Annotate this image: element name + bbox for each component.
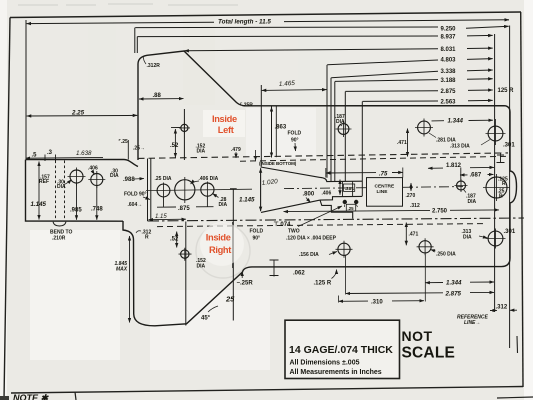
1.020 vertical with arrows (trapezoid left edge) [260, 168, 262, 211]
dimension .52 upper [171, 127, 181, 129]
CENTRE LINE box [367, 178, 403, 207]
dimension 1.145 tab height [38, 162, 40, 220]
dimension .75 centre [326, 172, 376, 174]
small vertical with arrow near 255 [255, 150, 257, 161]
svg-text:1.812: 1.812 [446, 163, 462, 169]
svg-text:.301: .301 [503, 143, 515, 149]
circles row hairline centerline [146, 189, 252, 190]
dimension 1.344 lower [425, 282, 443, 284]
svg-text:1.344: 1.344 [446, 280, 462, 287]
svg-text:R: R [145, 235, 149, 241]
left tab outline [26, 160, 139, 167]
svg-text:90°: 90° [291, 138, 299, 144]
svg-text:.88: .88 [153, 93, 162, 99]
drop 8.937 [136, 37, 138, 53]
svg-text:DIA: DIA [219, 202, 228, 208]
svg-text:.406: .406 [322, 191, 332, 197]
dimension 8.031 [184, 49, 438, 51]
svg-text:1.145: 1.145 [31, 201, 47, 208]
svg-text:.800: .800 [303, 192, 315, 198]
svg-text:.210R: .210R [52, 236, 66, 242]
drop 1.465 left [260, 85, 262, 167]
hole .156 DIA [338, 243, 350, 255]
dimension 1.845 MAX [129, 236, 131, 323]
svg-text:1.344: 1.344 [448, 117, 464, 124]
.863 extension [271, 107, 273, 158]
svg-text:1.15: 1.15 [155, 214, 167, 220]
svg-text:.471: .471 [397, 140, 407, 146]
svg-text:.125 R: .125 R [314, 281, 332, 287]
hole .187 DIA upper [338, 124, 349, 135]
svg-text:.25→: .25→ [133, 146, 145, 152]
second extension [275, 107, 277, 158]
svg-text:R: R [499, 194, 503, 200]
svg-text:3.338: 3.338 [441, 69, 457, 75]
svg-text:125 R: 125 R [498, 88, 515, 94]
drop 2.563 / neck right edge [361, 102, 363, 197]
hole .281 DIA [418, 121, 431, 134]
dimension 2.750 [284, 210, 431, 211]
dimension .471 upper [407, 129, 409, 157]
svg-text:REF: REF [39, 179, 49, 185]
tooling hole lower (.152 DIA) [181, 250, 189, 258]
svg-text:DIA: DIA [110, 173, 119, 179]
svg-text:FOLD 90°: FOLD 90° [124, 192, 147, 198]
svg-text:3.188: 3.188 [441, 78, 457, 84]
svg-text:FOLD: FOLD [250, 229, 264, 235]
left vertical extension from total-length [25, 20, 27, 160]
svg-text:45°: 45° [201, 316, 211, 322]
svg-text:.312: .312 [496, 305, 508, 311]
mid row hole .25 DIA [157, 184, 170, 197]
svg-text:.687: .687 [470, 173, 482, 179]
vertical right of circles row [230, 189, 237, 321]
svg-text:.988: .988 [123, 177, 135, 183]
drop 3.188 [334, 82, 336, 182]
part outline: main body upper profile [26, 51, 517, 326]
dimension 2.563 [363, 100, 439, 102]
reference line B right [509, 26, 511, 349]
ghost marks above frame [18, 4, 238, 5]
svg-text:⌜.25: ⌜.25 [119, 139, 129, 145]
dimension 8.937 [137, 35, 438, 38]
svg-text:R: R [502, 181, 506, 187]
tab hole verticals .985 .748 [76, 184, 78, 220]
dimension .863 [271, 107, 273, 157]
svg-text:.75: .75 [379, 171, 388, 177]
hole .250 DIA [419, 241, 431, 253]
svg-text:.52: .52 [170, 237, 179, 243]
tab hole 2 .30 DIA [91, 174, 103, 186]
mid row hole .28 DIA [201, 183, 214, 196]
svg-text:.406 DIA: .406 DIA [199, 176, 219, 182]
svg-text:.301: .301 [504, 229, 516, 235]
svg-text:Right: Right [209, 245, 231, 255]
svg-text:90°: 90° [253, 236, 261, 242]
svg-text:.52: .52 [170, 143, 179, 149]
svg-text:2.25: 2.25 [71, 109, 85, 116]
dimension .875 [164, 197, 208, 207]
mid row hole .406 DIA [175, 180, 195, 200]
dimension 1.638 line with ticks [26, 156, 104, 159]
dimple dots (.120 DIA) [343, 200, 347, 204]
svg-text:DIA: DIA [468, 199, 477, 205]
lower fold dash-dot line [148, 218, 524, 221]
drop 3.338 [330, 78, 332, 182]
svg-text:.863: .863 [275, 125, 287, 131]
svg-text:⊤.074: ⊤.074 [274, 221, 292, 228]
svg-text:DIA: DIA [57, 184, 66, 190]
tab fold verticals [147, 159, 149, 222]
steps below neck [320, 200, 353, 219]
svg-text:.310: .310 [371, 299, 383, 305]
svg-text:.406: .406 [88, 166, 98, 172]
svg-text:9.250: 9.250 [441, 27, 457, 33]
svg-text:4.803: 4.803 [441, 58, 457, 64]
trapezoid (inside bottom region) [261, 167, 363, 219]
svg-text:LINE→: LINE→ [464, 320, 480, 326]
hole .313 DIA lower right [488, 231, 503, 246]
svg-text:Left: Left [218, 125, 234, 135]
hole .313 DIA upper right [488, 126, 503, 141]
svg-text:.313 DIA: .313 DIA [450, 143, 470, 149]
svg-text:.471: .471 [409, 232, 419, 238]
svg-text:14 GAGE/.074 THICK: 14 GAGE/.074 THICK [289, 344, 393, 356]
svg-text:8.031: 8.031 [441, 47, 457, 53]
dimension: total length 11.5 [27, 22, 214, 23]
svg-text:Inside: Inside [206, 233, 231, 243]
svg-text:.748: .748 [91, 207, 103, 213]
svg-text:2.750: 2.750 [432, 209, 448, 215]
brace under bend lines [53, 222, 66, 226]
svg-text:FOLD: FOLD [288, 131, 302, 137]
upper fold dashed line 1 [138, 153, 508, 159]
vertical 45-deg region [232, 222, 234, 268]
bump big half-circle [486, 177, 507, 198]
svg-text:.604→: .604→ [128, 202, 143, 208]
dimension 4.803 [327, 60, 438, 65]
svg-text:All Dimensions ±.005: All Dimensions ±.005 [290, 360, 360, 367]
drop 4.803 [326, 65, 328, 178]
lower fold dashed line 2 [157, 224, 486, 227]
dimension .471 lower [405, 223, 407, 246]
centre dash-dot line [284, 187, 463, 189]
svg-text:2.563: 2.563 [441, 99, 457, 105]
svg-text:1.465: 1.465 [279, 80, 296, 88]
svg-text:(INSIDE BOTTOM): (INSIDE BOTTOM) [259, 161, 297, 166]
svg-text:DIA: DIA [197, 264, 206, 270]
svg-text:LINE: LINE [377, 189, 389, 195]
svg-text:NOT: NOT [402, 328, 433, 344]
svg-text:1.638: 1.638 [76, 150, 92, 157]
svg-text:CENTRE: CENTRE [375, 184, 396, 190]
extension line A right [494, 34, 496, 312]
dimension 1.465 [262, 89, 327, 92]
hole .187 DIA at bump [457, 181, 466, 190]
svg-text:.3: .3 [47, 150, 53, 156]
svg-text:.875: .875 [178, 206, 190, 212]
dimension 3.338 [331, 71, 438, 78]
svg-text:SCALE: SCALE [402, 345, 456, 362]
svg-text:25: 25 [225, 295, 235, 304]
datum T mark [497, 154, 505, 163]
svg-text:Total length - 11.5: Total length - 11.5 [218, 19, 271, 26]
dimension 2.875 lower [346, 292, 443, 295]
svg-text:.120 DIA × .004 DEEP: .120 DIA × .004 DEEP [286, 236, 337, 242]
svg-text:DIA: DIA [197, 149, 206, 155]
label .281 neck with arrows [339, 180, 341, 195]
svg-text:.25 DIA: .25 DIA [155, 176, 172, 182]
long vertical through lower tooling hole [185, 222, 187, 326]
tab hole 1 .30 DIA [70, 170, 83, 183]
svg-text:.270: .270 [406, 193, 416, 199]
bottom-left dark corner blob [0, 396, 9, 400]
tooling hole upper (above fold) [181, 124, 188, 131]
svg-text:.250 DIA: .250 DIA [436, 252, 456, 258]
svg-text:.25: .25 [348, 206, 355, 211]
vertical through upper tooling hole [183, 109, 185, 160]
svg-text:NOTE ✱: NOTE ✱ [13, 393, 50, 400]
svg-text:TWO: TWO [288, 229, 300, 235]
svg-text:⌜.25R: ⌜.25R [240, 102, 253, 108]
ghost circle near Inside Right [196, 224, 250, 278]
svg-text:All Measurements in Inches: All Measurements in Inches [290, 369, 382, 376]
svg-text:.5: .5 [32, 153, 38, 159]
svg-text:.062: .062 [293, 271, 305, 277]
svg-text:1.145: 1.145 [239, 197, 255, 204]
drop 2.875 [344, 92, 346, 182]
svg-text:−.25R: −.25R [237, 281, 254, 287]
dimension .310 [339, 300, 369, 302]
svg-text:MAX: MAX [116, 267, 128, 273]
note box [285, 320, 400, 378]
dimension 9.250 [135, 26, 438, 29]
svg-text:2.875: 2.875 [445, 290, 462, 297]
svg-text:.985: .985 [70, 208, 82, 214]
short vertical at body join [127, 140, 129, 160]
dimension 1.15 [149, 218, 187, 221]
svg-text:Inside: Inside [212, 114, 237, 124]
dimension 3.188 [335, 80, 438, 82]
dimension 2.875 [345, 90, 438, 93]
svg-text:8.937: 8.937 [441, 35, 457, 41]
boxed .25 label [346, 204, 355, 211]
red label Inside Right [200, 222, 244, 266]
dimension .88 [139, 98, 184, 100]
svg-text:2.875: 2.875 [441, 89, 457, 95]
svg-text:.281: .281 [345, 186, 355, 192]
upper fold dashed line 2 [240, 156, 508, 161]
svg-text:.312: .312 [410, 203, 420, 209]
dimension .312 reference [490, 309, 497, 311]
svg-text:.312R: .312R [147, 63, 161, 69]
tab bend dashed lines [56, 161, 65, 221]
red label Inside Left [203, 110, 245, 137]
svg-text:.156 DIA: .156 DIA [299, 252, 319, 258]
dimension .52 lower [176, 232, 178, 248]
dimension 2.25 [27, 114, 138, 117]
svg-text:DIA: DIA [463, 235, 472, 241]
drop 9.250 [134, 28, 136, 53]
